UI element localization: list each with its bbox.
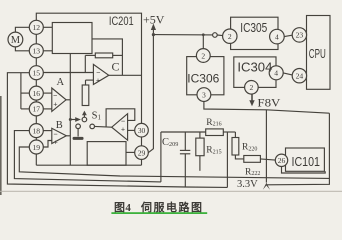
svg-text:24: 24 xyxy=(296,72,304,81)
svg-text:2: 2 xyxy=(201,51,205,60)
svg-text:IC304: IC304 xyxy=(237,61,272,75)
svg-text:2: 2 xyxy=(250,83,254,92)
svg-text:M: M xyxy=(11,35,21,46)
svg-text:30: 30 xyxy=(138,126,146,135)
svg-text:IC101: IC101 xyxy=(292,155,321,169)
svg-text:4: 4 xyxy=(274,69,278,78)
svg-text:19: 19 xyxy=(33,143,41,152)
svg-text:F8V: F8V xyxy=(257,97,281,109)
svg-text:B: B xyxy=(56,120,63,131)
svg-text:A: A xyxy=(57,77,65,88)
svg-text:图4伺服电路图: 图4伺服电路图 xyxy=(114,200,204,214)
svg-text:CPU: CPU xyxy=(309,46,326,61)
svg-text:+5V: +5V xyxy=(143,13,165,27)
svg-text:15: 15 xyxy=(33,69,41,78)
svg-text:C: C xyxy=(112,59,120,73)
svg-text:23: 23 xyxy=(296,31,304,40)
svg-text:13: 13 xyxy=(33,47,41,56)
svg-text:2: 2 xyxy=(228,32,232,41)
svg-text:12: 12 xyxy=(33,23,41,32)
svg-text:4: 4 xyxy=(275,32,279,41)
svg-text:+: + xyxy=(54,138,58,147)
svg-text:IC306: IC306 xyxy=(187,71,219,85)
svg-text:18: 18 xyxy=(33,126,41,135)
svg-text:IC201: IC201 xyxy=(109,14,134,28)
svg-text:16: 16 xyxy=(33,89,41,98)
svg-text:17: 17 xyxy=(33,105,41,114)
svg-text:+: + xyxy=(53,100,57,109)
svg-text:26: 26 xyxy=(278,156,286,165)
svg-text:+: + xyxy=(121,125,125,134)
svg-text:3.3V: 3.3V xyxy=(237,179,258,190)
svg-text:3: 3 xyxy=(202,90,206,99)
svg-text:IC305: IC305 xyxy=(240,21,267,35)
svg-text:29: 29 xyxy=(138,148,146,157)
svg-text:+: + xyxy=(96,76,100,85)
